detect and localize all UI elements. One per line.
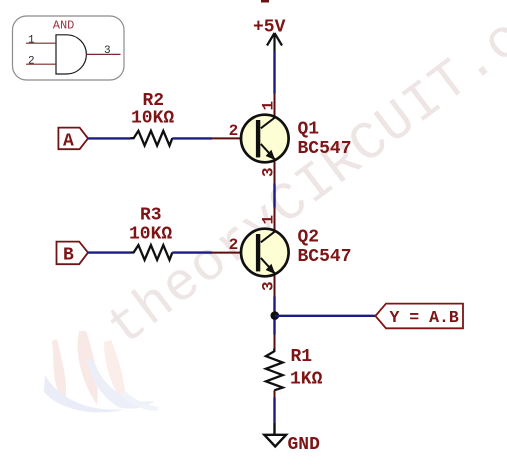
AND gate pin 2 line bbox=[26, 63, 56, 65]
svg-text:2: 2 bbox=[229, 122, 239, 140]
svg-text:1: 1 bbox=[28, 34, 35, 46]
wire R2 to Q1 base bbox=[172, 137, 212, 139]
svg-text:R1: R1 bbox=[291, 347, 313, 367]
wire A to R2 bbox=[88, 137, 131, 139]
resistor R3 bbox=[131, 245, 173, 260]
svg-text:BC547: BC547 bbox=[298, 247, 352, 267]
junction node bbox=[271, 311, 280, 320]
ground symbol bbox=[264, 423, 286, 447]
input flag B bbox=[57, 242, 89, 266]
logo watermark flame bbox=[44, 331, 159, 412]
svg-text:BC547: BC547 bbox=[298, 139, 352, 159]
AND gate pin 1 line bbox=[26, 42, 56, 44]
AND legend box bbox=[13, 16, 125, 80]
wire junction to output flag bbox=[275, 315, 376, 317]
wire R1 to GND bbox=[273, 398, 275, 423]
svg-text:3: 3 bbox=[104, 45, 111, 57]
svg-text:GND: GND bbox=[288, 435, 321, 455]
svg-text:3: 3 bbox=[260, 281, 278, 291]
svg-text:Q2: Q2 bbox=[298, 228, 320, 248]
svg-text:2: 2 bbox=[229, 236, 239, 254]
top edge artifact bbox=[261, 0, 269, 3]
svg-text:Y = A.B: Y = A.B bbox=[390, 308, 459, 327]
resistor R2 bbox=[131, 131, 173, 146]
svg-text:1: 1 bbox=[260, 101, 278, 111]
svg-text:3: 3 bbox=[260, 167, 278, 177]
svg-text:1: 1 bbox=[260, 215, 278, 225]
watermark text theoryCIRCUIT.com bbox=[97, 0, 507, 360]
svg-text:AND: AND bbox=[53, 19, 75, 33]
transistor Q1 bbox=[212, 94, 289, 184]
wire B to R3 bbox=[88, 251, 131, 253]
wire Q1 emitter to Q2 collector bbox=[273, 184, 275, 208]
resistor R1 bbox=[266, 335, 283, 398]
input flag A bbox=[58, 128, 88, 152]
AND gate pin 3 line bbox=[87, 53, 121, 55]
svg-text:10KΩ: 10KΩ bbox=[129, 225, 172, 245]
svg-text:10KΩ: 10KΩ bbox=[131, 108, 174, 128]
svg-text:2: 2 bbox=[28, 55, 35, 67]
transistor Q2 bbox=[212, 208, 289, 297]
svg-text:+5V: +5V bbox=[253, 18, 286, 38]
svg-text:A: A bbox=[63, 131, 74, 151]
wire +5V to Q1 collector bbox=[273, 51, 275, 94]
output flag Y = A.B bbox=[375, 304, 463, 329]
wire R3 to Q2 base bbox=[172, 251, 212, 253]
svg-text:Q1: Q1 bbox=[298, 119, 320, 139]
AND gate body bbox=[56, 35, 86, 74]
svg-text:1KΩ: 1KΩ bbox=[290, 370, 323, 390]
svg-text:R3: R3 bbox=[140, 206, 162, 226]
svg-text:B: B bbox=[63, 246, 74, 266]
power +5V arrow bbox=[267, 33, 282, 51]
wire Q2 emitter to junction and R1 bbox=[273, 297, 275, 335]
